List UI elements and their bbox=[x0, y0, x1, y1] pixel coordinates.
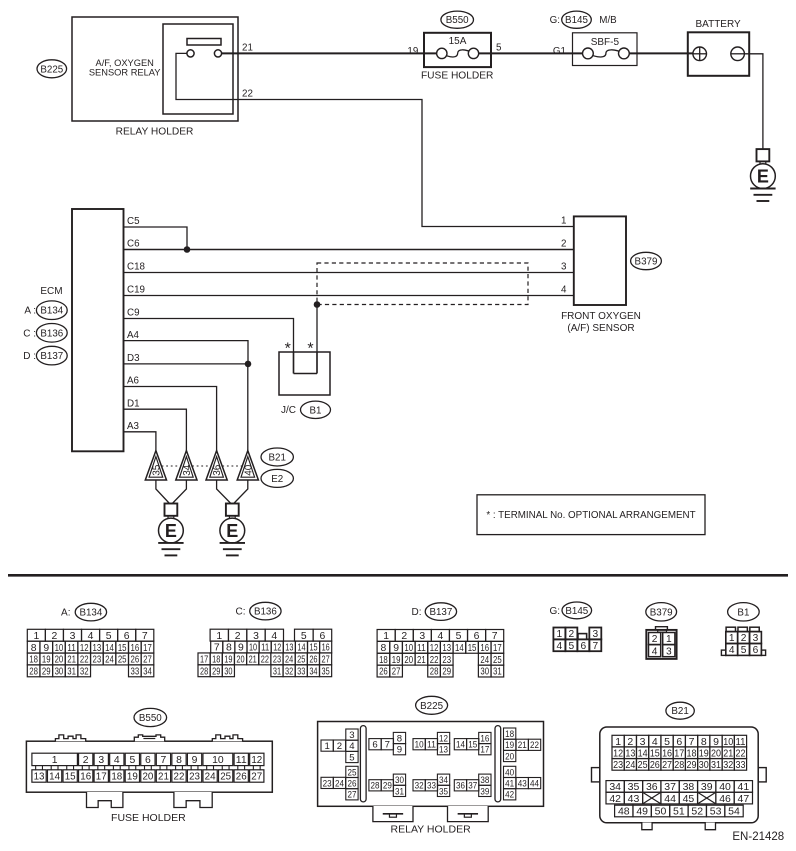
svg-text:13: 13 bbox=[442, 643, 451, 654]
svg-text:15A: 15A bbox=[449, 36, 467, 47]
svg-text:2: 2 bbox=[235, 631, 241, 642]
svg-text:2: 2 bbox=[627, 736, 633, 748]
svg-text:1: 1 bbox=[561, 216, 566, 227]
svg-text:17: 17 bbox=[480, 745, 489, 756]
svg-text:B379: B379 bbox=[635, 256, 658, 267]
svg-text:48: 48 bbox=[618, 806, 630, 818]
svg-text:35: 35 bbox=[152, 464, 163, 476]
svg-text:A6: A6 bbox=[127, 376, 140, 387]
svg-text:7: 7 bbox=[214, 643, 220, 654]
svg-text:6: 6 bbox=[581, 641, 587, 652]
svg-text:4: 4 bbox=[652, 736, 658, 748]
svg-text:C9: C9 bbox=[127, 308, 140, 319]
svg-text:4: 4 bbox=[557, 641, 563, 652]
svg-text:E: E bbox=[165, 521, 177, 541]
svg-text:27: 27 bbox=[143, 655, 152, 666]
svg-text:B137: B137 bbox=[429, 607, 452, 618]
svg-text:29: 29 bbox=[442, 667, 451, 678]
svg-text:C5: C5 bbox=[127, 216, 140, 227]
svg-text:FUSE HOLDER: FUSE HOLDER bbox=[421, 70, 493, 81]
svg-text:1: 1 bbox=[666, 634, 672, 645]
svg-text:4: 4 bbox=[271, 631, 277, 642]
svg-text:31: 31 bbox=[493, 667, 502, 678]
svg-text:24: 24 bbox=[285, 655, 293, 666]
svg-text:5: 5 bbox=[496, 43, 502, 54]
svg-text:49: 49 bbox=[636, 806, 648, 818]
svg-text:13: 13 bbox=[625, 747, 635, 759]
svg-text:21: 21 bbox=[67, 655, 76, 666]
svg-text:8: 8 bbox=[701, 736, 707, 748]
svg-text:3: 3 bbox=[666, 646, 672, 657]
svg-text:23: 23 bbox=[442, 655, 451, 666]
svg-text:23: 23 bbox=[93, 655, 102, 666]
svg-text:10: 10 bbox=[212, 755, 224, 766]
svg-text:B145: B145 bbox=[565, 15, 588, 26]
svg-text:28: 28 bbox=[371, 781, 380, 792]
svg-text:22: 22 bbox=[242, 89, 253, 100]
svg-text:33: 33 bbox=[427, 781, 436, 792]
svg-text:43: 43 bbox=[628, 793, 640, 805]
svg-text:24: 24 bbox=[625, 759, 635, 771]
svg-text:36: 36 bbox=[646, 781, 658, 793]
svg-text:3: 3 bbox=[70, 631, 76, 642]
svg-text:34: 34 bbox=[439, 775, 449, 786]
svg-text:42: 42 bbox=[609, 793, 621, 805]
svg-text:B134: B134 bbox=[40, 306, 63, 317]
svg-text:2: 2 bbox=[52, 631, 58, 642]
svg-text:14: 14 bbox=[49, 772, 60, 783]
svg-text:20: 20 bbox=[404, 655, 413, 666]
svg-text:12: 12 bbox=[273, 643, 281, 654]
svg-text:G1: G1 bbox=[553, 46, 566, 57]
svg-text:E: E bbox=[226, 521, 238, 541]
svg-text:12: 12 bbox=[430, 643, 439, 654]
svg-text:42: 42 bbox=[505, 790, 514, 801]
svg-text:29: 29 bbox=[212, 666, 220, 677]
svg-text:* : TERMINAL No. OPTIONAL ARRA: * : TERMINAL No. OPTIONAL ARRANGEMENT bbox=[486, 510, 695, 521]
svg-text:J/C: J/C bbox=[281, 405, 296, 416]
svg-text:21: 21 bbox=[158, 772, 169, 783]
svg-text:D1: D1 bbox=[127, 398, 140, 409]
svg-text:18: 18 bbox=[111, 772, 122, 783]
svg-text:20: 20 bbox=[236, 655, 244, 666]
svg-text:11: 11 bbox=[236, 755, 247, 766]
svg-text:19: 19 bbox=[224, 655, 232, 666]
svg-text:8: 8 bbox=[176, 755, 182, 766]
svg-text:6: 6 bbox=[474, 631, 480, 642]
svg-text:C18: C18 bbox=[127, 262, 146, 273]
svg-text:15: 15 bbox=[468, 740, 477, 751]
svg-text:26: 26 bbox=[347, 779, 356, 790]
svg-text:24: 24 bbox=[480, 655, 489, 666]
svg-text:35: 35 bbox=[321, 666, 329, 677]
svg-text:3: 3 bbox=[561, 262, 567, 273]
svg-text:E: E bbox=[757, 166, 769, 186]
svg-text:19: 19 bbox=[505, 740, 514, 751]
svg-text:*: * bbox=[285, 341, 291, 358]
svg-text:14: 14 bbox=[297, 643, 305, 654]
svg-text:13: 13 bbox=[34, 772, 45, 783]
svg-text:51: 51 bbox=[673, 806, 685, 818]
svg-text:8: 8 bbox=[31, 643, 37, 654]
svg-text:G:: G: bbox=[550, 15, 560, 26]
svg-text:8: 8 bbox=[397, 733, 402, 744]
svg-text:4: 4 bbox=[88, 631, 94, 642]
svg-text:1: 1 bbox=[216, 631, 222, 642]
svg-text:3: 3 bbox=[98, 755, 104, 766]
svg-text:11: 11 bbox=[735, 736, 745, 748]
svg-text:34: 34 bbox=[143, 667, 152, 678]
svg-text:9: 9 bbox=[238, 643, 244, 654]
svg-text:24: 24 bbox=[105, 655, 114, 666]
svg-text:9: 9 bbox=[393, 643, 399, 654]
svg-text:1: 1 bbox=[33, 631, 39, 642]
svg-text:3: 3 bbox=[592, 629, 598, 640]
svg-text:43: 43 bbox=[518, 779, 527, 790]
svg-text:44: 44 bbox=[664, 793, 676, 805]
svg-text:30: 30 bbox=[55, 667, 64, 678]
svg-text:9: 9 bbox=[713, 736, 719, 748]
svg-text:B225: B225 bbox=[420, 701, 443, 712]
svg-text:31: 31 bbox=[67, 667, 76, 678]
svg-text:12: 12 bbox=[613, 747, 623, 759]
svg-text:1: 1 bbox=[615, 736, 621, 748]
svg-text:4: 4 bbox=[349, 741, 355, 752]
svg-text:6: 6 bbox=[753, 645, 759, 656]
svg-text:36: 36 bbox=[456, 781, 465, 792]
svg-text:32: 32 bbox=[80, 667, 89, 678]
svg-text:G:: G: bbox=[549, 606, 560, 617]
svg-text:20: 20 bbox=[505, 751, 514, 762]
svg-text:18: 18 bbox=[29, 655, 38, 666]
svg-text:25: 25 bbox=[220, 772, 231, 783]
svg-text:2: 2 bbox=[83, 755, 89, 766]
svg-text:27: 27 bbox=[251, 772, 262, 783]
svg-text:19: 19 bbox=[42, 655, 51, 666]
svg-text:16: 16 bbox=[480, 733, 489, 744]
svg-text:21: 21 bbox=[518, 740, 527, 751]
svg-text:15: 15 bbox=[650, 747, 660, 759]
svg-text:31: 31 bbox=[395, 786, 404, 797]
svg-text:9: 9 bbox=[397, 745, 402, 756]
svg-text:21: 21 bbox=[723, 747, 733, 759]
svg-text:28: 28 bbox=[674, 759, 684, 771]
svg-text:5: 5 bbox=[106, 631, 112, 642]
svg-text:23: 23 bbox=[613, 759, 623, 771]
svg-text:37: 37 bbox=[468, 781, 477, 792]
svg-text:17: 17 bbox=[493, 643, 502, 654]
svg-text:25: 25 bbox=[297, 655, 305, 666]
svg-text:16: 16 bbox=[130, 643, 139, 654]
svg-text:D:: D: bbox=[412, 607, 422, 618]
svg-text:28: 28 bbox=[200, 666, 208, 677]
svg-text:3: 3 bbox=[753, 633, 759, 644]
svg-text:31: 31 bbox=[711, 759, 721, 771]
svg-text:15: 15 bbox=[118, 643, 127, 654]
svg-text:16: 16 bbox=[322, 643, 330, 654]
svg-text:33: 33 bbox=[735, 759, 745, 771]
svg-text:7: 7 bbox=[592, 641, 598, 652]
svg-text:FRONT OXYGEN: FRONT OXYGEN bbox=[561, 311, 641, 322]
svg-text:21: 21 bbox=[417, 655, 426, 666]
svg-text:M/B: M/B bbox=[599, 15, 617, 26]
svg-text:22: 22 bbox=[261, 655, 269, 666]
svg-text:22: 22 bbox=[174, 772, 185, 783]
svg-text:C6: C6 bbox=[127, 239, 140, 250]
svg-text:17: 17 bbox=[96, 772, 107, 783]
svg-text:30: 30 bbox=[480, 667, 489, 678]
svg-text:20: 20 bbox=[55, 655, 64, 666]
svg-text:54: 54 bbox=[728, 806, 740, 818]
svg-text:40: 40 bbox=[505, 767, 514, 778]
svg-text:11: 11 bbox=[67, 643, 76, 654]
svg-text:33: 33 bbox=[130, 667, 139, 678]
svg-text:SBF-5: SBF-5 bbox=[591, 37, 620, 48]
svg-text:ECM: ECM bbox=[40, 286, 62, 297]
svg-text:12: 12 bbox=[439, 733, 448, 744]
svg-text:1: 1 bbox=[383, 631, 389, 642]
svg-text:27: 27 bbox=[662, 759, 672, 771]
svg-text:22: 22 bbox=[530, 740, 539, 751]
svg-text:12: 12 bbox=[80, 643, 89, 654]
svg-text:44: 44 bbox=[530, 779, 540, 790]
svg-text:18: 18 bbox=[505, 729, 514, 740]
svg-text:6: 6 bbox=[372, 740, 377, 751]
svg-text:7: 7 bbox=[492, 631, 498, 642]
svg-text:3: 3 bbox=[640, 736, 646, 748]
svg-text:3: 3 bbox=[253, 631, 259, 642]
svg-text:30: 30 bbox=[224, 666, 232, 677]
svg-text:16: 16 bbox=[480, 643, 489, 654]
svg-text:7: 7 bbox=[689, 736, 695, 748]
svg-text:14: 14 bbox=[455, 643, 464, 654]
svg-text:30: 30 bbox=[699, 759, 709, 771]
svg-text:19: 19 bbox=[392, 655, 401, 666]
svg-text:27: 27 bbox=[392, 667, 401, 678]
svg-text:2: 2 bbox=[337, 741, 342, 752]
svg-text:33: 33 bbox=[297, 666, 305, 677]
svg-text:14: 14 bbox=[638, 747, 648, 759]
svg-text:11: 11 bbox=[261, 643, 269, 654]
svg-text:4: 4 bbox=[652, 646, 658, 657]
svg-text:25: 25 bbox=[347, 767, 356, 778]
svg-text:1: 1 bbox=[729, 633, 735, 644]
svg-text:27: 27 bbox=[347, 790, 356, 801]
svg-text:FUSE HOLDER: FUSE HOLDER bbox=[111, 812, 186, 824]
svg-text:36: 36 bbox=[212, 464, 223, 476]
svg-text:5: 5 bbox=[664, 736, 670, 748]
svg-text:RELAY HOLDER: RELAY HOLDER bbox=[116, 127, 194, 138]
svg-text:50: 50 bbox=[655, 806, 667, 818]
svg-text:1: 1 bbox=[324, 741, 329, 752]
svg-text:38: 38 bbox=[683, 781, 695, 793]
svg-text:29: 29 bbox=[687, 759, 697, 771]
svg-text:B134: B134 bbox=[79, 608, 102, 619]
svg-text:10: 10 bbox=[415, 740, 424, 751]
svg-text:26: 26 bbox=[650, 759, 660, 771]
svg-text:1: 1 bbox=[52, 755, 58, 766]
svg-text:C :: C : bbox=[23, 328, 36, 339]
svg-text:B21: B21 bbox=[268, 452, 285, 463]
svg-text:8: 8 bbox=[381, 643, 387, 654]
svg-text:35: 35 bbox=[439, 786, 448, 797]
svg-text:6: 6 bbox=[145, 755, 151, 766]
svg-text:11: 11 bbox=[417, 643, 426, 654]
svg-text:9: 9 bbox=[192, 755, 198, 766]
svg-text:D :: D : bbox=[23, 351, 36, 362]
svg-text:39: 39 bbox=[701, 781, 713, 793]
svg-text:41: 41 bbox=[738, 781, 750, 793]
svg-text:28: 28 bbox=[430, 667, 439, 678]
svg-text:17: 17 bbox=[143, 643, 152, 654]
svg-text:30: 30 bbox=[395, 775, 404, 786]
svg-text:26: 26 bbox=[236, 772, 247, 783]
svg-text:13: 13 bbox=[93, 643, 102, 654]
svg-text:C19: C19 bbox=[127, 285, 145, 296]
svg-text:B379: B379 bbox=[650, 607, 673, 618]
svg-text:B550: B550 bbox=[139, 713, 162, 724]
svg-text:B137: B137 bbox=[40, 351, 63, 362]
svg-text:16: 16 bbox=[80, 772, 91, 783]
svg-text:8: 8 bbox=[226, 643, 232, 654]
svg-text:1: 1 bbox=[557, 629, 563, 640]
svg-text:26: 26 bbox=[130, 655, 139, 666]
svg-text:25: 25 bbox=[493, 655, 502, 666]
svg-text:15: 15 bbox=[468, 643, 477, 654]
svg-text:15: 15 bbox=[65, 772, 76, 783]
svg-text:SENSOR RELAY: SENSOR RELAY bbox=[89, 68, 161, 78]
svg-text:5: 5 bbox=[569, 641, 575, 652]
svg-text:34: 34 bbox=[609, 781, 621, 793]
svg-text:23: 23 bbox=[189, 772, 200, 783]
svg-text:A:: A: bbox=[61, 607, 70, 618]
svg-text:14: 14 bbox=[456, 740, 466, 751]
svg-text:53: 53 bbox=[710, 806, 722, 818]
svg-text:10: 10 bbox=[55, 643, 64, 654]
svg-text:2: 2 bbox=[652, 634, 658, 645]
svg-text:47: 47 bbox=[738, 793, 750, 805]
svg-text:*: * bbox=[307, 341, 313, 358]
svg-text:C:: C: bbox=[236, 606, 246, 617]
svg-text:6: 6 bbox=[320, 631, 326, 642]
svg-text:4: 4 bbox=[438, 631, 444, 642]
svg-text:37: 37 bbox=[664, 781, 676, 793]
svg-text:20: 20 bbox=[142, 772, 153, 783]
svg-text:22: 22 bbox=[430, 655, 439, 666]
svg-text:41: 41 bbox=[505, 779, 514, 790]
svg-text:12: 12 bbox=[251, 755, 262, 766]
svg-text:10: 10 bbox=[723, 736, 733, 748]
svg-text:7: 7 bbox=[161, 755, 167, 766]
svg-text:BATTERY: BATTERY bbox=[695, 19, 741, 30]
svg-text:10: 10 bbox=[404, 643, 413, 654]
svg-text:B136: B136 bbox=[40, 328, 63, 339]
svg-text:18: 18 bbox=[212, 655, 220, 666]
svg-text:32: 32 bbox=[415, 781, 424, 792]
svg-text:5: 5 bbox=[301, 631, 307, 642]
svg-text:21: 21 bbox=[242, 43, 253, 54]
svg-text:25: 25 bbox=[118, 655, 127, 666]
svg-text:A :: A : bbox=[24, 306, 36, 317]
svg-text:B1: B1 bbox=[737, 607, 749, 618]
svg-text:13: 13 bbox=[439, 745, 448, 756]
svg-text:52: 52 bbox=[691, 806, 703, 818]
svg-text:18: 18 bbox=[379, 655, 388, 666]
svg-text:32: 32 bbox=[285, 666, 293, 677]
svg-text:B1: B1 bbox=[310, 405, 322, 416]
svg-text:4: 4 bbox=[729, 645, 735, 656]
svg-text:B21: B21 bbox=[671, 706, 688, 717]
svg-text:A3: A3 bbox=[127, 421, 140, 432]
svg-text:29: 29 bbox=[42, 667, 51, 678]
svg-text:4: 4 bbox=[561, 285, 567, 296]
svg-text:2: 2 bbox=[741, 633, 747, 644]
svg-text:29: 29 bbox=[383, 781, 392, 792]
svg-text:19: 19 bbox=[699, 747, 709, 759]
svg-text:39: 39 bbox=[480, 786, 489, 797]
svg-text:38: 38 bbox=[480, 775, 489, 786]
svg-text:34: 34 bbox=[309, 666, 317, 677]
svg-text:7: 7 bbox=[385, 740, 390, 751]
svg-text:16: 16 bbox=[662, 747, 672, 759]
svg-text:40: 40 bbox=[243, 464, 254, 476]
svg-text:17: 17 bbox=[200, 655, 208, 666]
svg-text:2: 2 bbox=[401, 631, 407, 642]
svg-text:RELAY HOLDER: RELAY HOLDER bbox=[391, 824, 472, 836]
svg-text:A4: A4 bbox=[127, 330, 140, 341]
svg-text:(A/F) SENSOR: (A/F) SENSOR bbox=[567, 323, 634, 334]
svg-text:20: 20 bbox=[711, 747, 721, 759]
svg-text:5: 5 bbox=[349, 752, 354, 763]
svg-text:24: 24 bbox=[335, 778, 345, 789]
svg-text:B225: B225 bbox=[40, 64, 63, 75]
svg-text:EN-21428: EN-21428 bbox=[732, 831, 784, 843]
svg-text:18: 18 bbox=[687, 747, 697, 759]
svg-text:5: 5 bbox=[456, 631, 462, 642]
svg-text:7: 7 bbox=[142, 631, 148, 642]
svg-text:26: 26 bbox=[309, 655, 317, 666]
svg-text:28: 28 bbox=[29, 667, 38, 678]
svg-text:19: 19 bbox=[127, 772, 138, 783]
svg-text:22: 22 bbox=[80, 655, 89, 666]
svg-text:6: 6 bbox=[124, 631, 130, 642]
svg-text:2: 2 bbox=[561, 239, 566, 250]
svg-text:E2: E2 bbox=[271, 474, 283, 485]
svg-text:13: 13 bbox=[285, 643, 293, 654]
svg-text:D3: D3 bbox=[127, 353, 140, 364]
svg-text:46: 46 bbox=[719, 793, 731, 805]
svg-text:B136: B136 bbox=[254, 607, 277, 618]
svg-text:14: 14 bbox=[105, 643, 114, 654]
svg-text:27: 27 bbox=[321, 655, 329, 666]
svg-text:24: 24 bbox=[205, 772, 216, 783]
svg-text:B550: B550 bbox=[446, 15, 469, 26]
svg-text:45: 45 bbox=[683, 793, 695, 805]
svg-text:17: 17 bbox=[674, 747, 684, 759]
svg-text:3: 3 bbox=[349, 730, 354, 741]
svg-text:23: 23 bbox=[323, 778, 332, 789]
svg-text:23: 23 bbox=[273, 655, 281, 666]
svg-text:40: 40 bbox=[719, 781, 731, 793]
svg-text:6: 6 bbox=[676, 736, 682, 748]
svg-text:32: 32 bbox=[723, 759, 733, 771]
svg-text:25: 25 bbox=[638, 759, 648, 771]
svg-text:11: 11 bbox=[427, 740, 436, 751]
svg-text:34: 34 bbox=[182, 464, 193, 476]
svg-text:22: 22 bbox=[735, 747, 745, 759]
svg-text:4: 4 bbox=[114, 755, 120, 766]
svg-text:31: 31 bbox=[273, 666, 281, 677]
